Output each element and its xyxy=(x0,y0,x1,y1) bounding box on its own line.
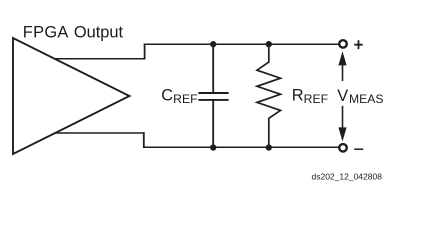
svg-text:Output: Output xyxy=(74,23,124,41)
svg-text:FPGA: FPGA xyxy=(23,23,69,41)
svg-text:VMEAS: VMEAS xyxy=(337,87,383,106)
svg-text:CREF: CREF xyxy=(161,87,197,106)
svg-text:ds202_12_042808: ds202_12_042808 xyxy=(312,172,383,182)
svg-text:RREF: RREF xyxy=(292,87,328,106)
